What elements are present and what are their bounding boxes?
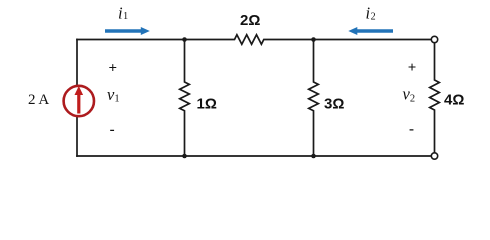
svg-text:3Ω: 3Ω: [324, 96, 344, 113]
svg-text:-: -: [110, 122, 115, 138]
svg-text:4Ω: 4Ω: [444, 92, 464, 109]
svg-text:1Ω: 1Ω: [197, 96, 217, 113]
svg-text:+: +: [408, 60, 417, 76]
svg-text:2Ω: 2Ω: [240, 12, 260, 29]
svg-text:-: -: [409, 122, 414, 138]
svg-text:2 A: 2 A: [28, 92, 49, 108]
svg-text:+: +: [109, 61, 118, 77]
